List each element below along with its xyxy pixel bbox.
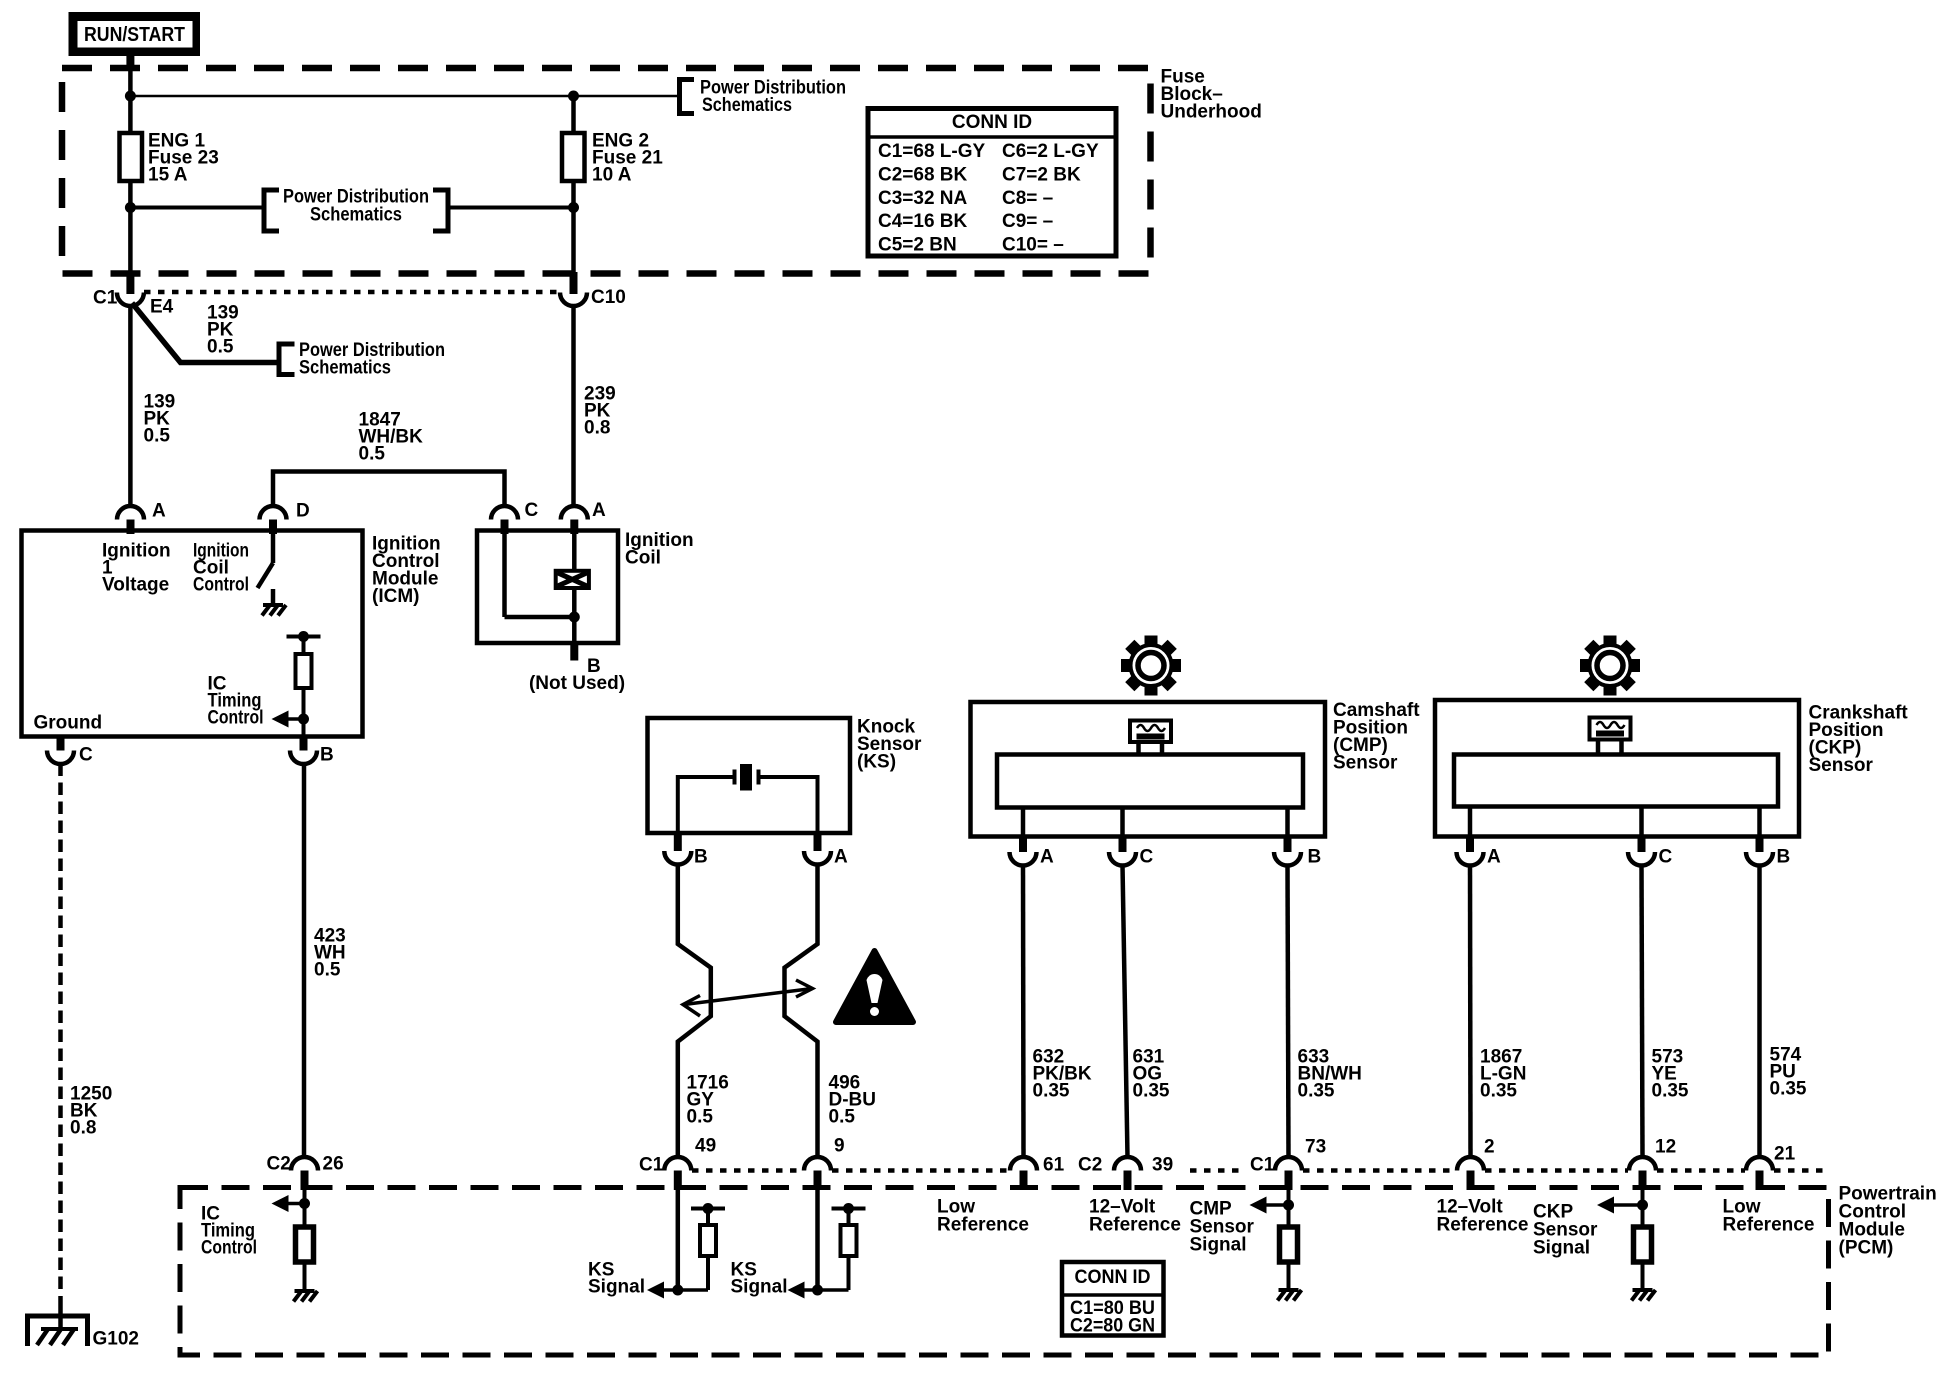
svg-text:9: 9 — [834, 1136, 845, 1157]
svg-text:0.35: 0.35 — [1033, 1081, 1070, 1102]
svg-text:Signal: Signal — [1190, 1235, 1247, 1256]
svg-text:CONN ID: CONN ID — [952, 112, 1032, 133]
svg-text:0.35: 0.35 — [1133, 1081, 1170, 1102]
svg-text:C9= –: C9= – — [1002, 211, 1053, 232]
svg-text:0.35: 0.35 — [1770, 1079, 1807, 1100]
svg-text:C: C — [525, 500, 539, 521]
svg-text:C1: C1 — [93, 288, 118, 309]
svg-text:C4=16 BK: C4=16 BK — [878, 211, 968, 232]
svg-text:Reference: Reference — [1723, 1215, 1815, 1236]
svg-text:A: A — [1040, 847, 1054, 868]
svg-text:RUN/START: RUN/START — [84, 24, 185, 46]
svg-text:C1=68 L-GY: C1=68 L-GY — [878, 141, 986, 162]
svg-text:B: B — [320, 745, 334, 766]
svg-text:C2=80 GN: C2=80 GN — [1070, 1316, 1155, 1337]
svg-text:D: D — [296, 501, 310, 522]
svg-text:C: C — [1659, 847, 1673, 868]
svg-text:B: B — [1308, 847, 1322, 868]
svg-text:10 A: 10 A — [592, 165, 632, 186]
svg-text:73: 73 — [1305, 1137, 1326, 1158]
svg-text:A: A — [834, 847, 848, 868]
svg-text:Reference: Reference — [1089, 1215, 1181, 1236]
svg-text:0.35: 0.35 — [1298, 1081, 1335, 1102]
svg-text:Reference: Reference — [937, 1215, 1029, 1236]
svg-text:0.5: 0.5 — [314, 960, 341, 981]
svg-text:Control: Control — [193, 575, 249, 596]
svg-text:0.5: 0.5 — [144, 426, 171, 447]
svg-text:0.5: 0.5 — [207, 337, 234, 358]
svg-text:2: 2 — [1484, 1137, 1495, 1158]
svg-text:C2: C2 — [267, 1154, 291, 1175]
svg-text:Signal: Signal — [731, 1277, 788, 1298]
svg-text:0.8: 0.8 — [70, 1118, 96, 1139]
svg-text:Schematics: Schematics — [299, 358, 391, 379]
svg-text:C8= –: C8= – — [1002, 188, 1053, 209]
svg-text:39: 39 — [1152, 1155, 1173, 1176]
svg-text:21: 21 — [1774, 1144, 1796, 1165]
svg-text:15 A: 15 A — [148, 165, 188, 186]
svg-text:Signal: Signal — [588, 1277, 645, 1298]
svg-text:Sensor: Sensor — [1809, 755, 1874, 776]
svg-text:Sensor: Sensor — [1333, 753, 1398, 774]
svg-text:C10: C10 — [591, 287, 626, 308]
svg-text:A: A — [592, 500, 606, 521]
svg-text:26: 26 — [323, 1154, 344, 1175]
svg-text:B: B — [1777, 847, 1791, 868]
svg-text:Signal: Signal — [1533, 1238, 1590, 1259]
svg-text:C7=2 BK: C7=2 BK — [1002, 164, 1081, 185]
svg-text:Schematics: Schematics — [310, 205, 402, 226]
svg-text:C6=2 L-GY: C6=2 L-GY — [1002, 141, 1099, 162]
svg-text:C3=32 NA: C3=32 NA — [878, 188, 968, 209]
svg-text:C2=68 BK: C2=68 BK — [878, 164, 968, 185]
svg-text:49: 49 — [695, 1136, 716, 1157]
svg-text:C5=2 BN: C5=2 BN — [878, 235, 957, 256]
svg-text:Control: Control — [201, 1238, 257, 1259]
svg-text:A: A — [152, 501, 166, 522]
svg-text:0.35: 0.35 — [1480, 1081, 1517, 1102]
svg-text:Ground: Ground — [34, 713, 103, 734]
svg-text:G102: G102 — [93, 1329, 139, 1350]
svg-text:E4: E4 — [150, 297, 174, 318]
svg-text:Voltage: Voltage — [102, 575, 169, 596]
svg-text:C1: C1 — [1250, 1155, 1275, 1176]
svg-text:(ICM): (ICM) — [372, 586, 419, 607]
svg-text:0.8: 0.8 — [584, 418, 610, 439]
svg-text:C2: C2 — [1078, 1155, 1102, 1176]
svg-text:0.35: 0.35 — [1652, 1081, 1689, 1102]
svg-text:(PCM): (PCM) — [1839, 1238, 1894, 1259]
svg-text:61: 61 — [1043, 1155, 1065, 1176]
svg-text:0.5: 0.5 — [687, 1107, 714, 1128]
svg-text:Schematics: Schematics — [702, 95, 792, 116]
svg-text:CONN ID: CONN ID — [1075, 1267, 1151, 1288]
svg-text:B: B — [694, 847, 708, 868]
svg-text:C: C — [1140, 847, 1154, 868]
svg-text:A: A — [1487, 847, 1501, 868]
svg-text:0.5: 0.5 — [829, 1107, 856, 1128]
svg-text:Coil: Coil — [625, 548, 661, 569]
svg-text:Control: Control — [208, 708, 264, 729]
svg-text:Reference: Reference — [1437, 1215, 1529, 1236]
svg-text:0.5: 0.5 — [359, 444, 386, 465]
svg-text:C1: C1 — [639, 1155, 664, 1176]
svg-text:C: C — [79, 745, 93, 766]
svg-text:C10= –: C10= – — [1002, 235, 1064, 256]
svg-text:12: 12 — [1655, 1137, 1676, 1158]
svg-text:Underhood: Underhood — [1161, 102, 1262, 123]
svg-text:(KS): (KS) — [857, 752, 896, 773]
svg-text:(Not Used): (Not Used) — [529, 673, 625, 694]
